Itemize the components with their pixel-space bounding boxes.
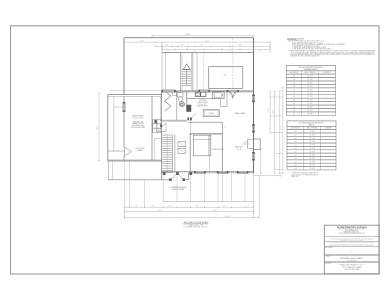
kitchen range (213, 92, 224, 99)
svg-text:BED RM 3: BED RM 3 (235, 147, 243, 149)
main bottom wall (162, 172, 254, 173)
bottom dimension line 2 (124, 210, 253, 213)
fireplace bump-out right wall (254, 139, 261, 149)
shelving cluster against wall (153, 120, 162, 133)
title block disclaimer paragraph 1 (330, 236, 374, 242)
svg-text:COMMENTS: COMMENTS (324, 128, 332, 130)
svg-text:FAMILY AREA: FAMILY AREA (235, 112, 247, 115)
svg-text:13'-2 x 14'-6: 13'-2 x 14'-6 (133, 118, 143, 120)
hall bottom wall (160, 120, 187, 121)
room schedule exterior walls table (287, 121, 336, 170)
svg-text:24'-8 1/2": 24'-8 1/2" (185, 34, 192, 36)
svg-text:CLIENT:: CLIENT: (325, 256, 330, 258)
bath/kitchen partition wall (186, 91, 188, 107)
windows top wall (162, 90, 210, 92)
door swing hall to deck (169, 172, 185, 181)
closet bifold doors zigzag (165, 91, 171, 112)
top dimension line 4 (162, 48, 270, 52)
stair enclosure wall (174, 134, 176, 172)
left wing outer wall (107, 94, 109, 161)
guest bed room right wall (221, 134, 223, 172)
top dimension line 1 (152, 34, 254, 37)
kitchen door jambs and swing (188, 114, 197, 120)
svg-text:1/2" GYP: 1/2" GYP (307, 113, 312, 115)
top dimension line 2 (124, 40, 270, 43)
svg-text:27'-4": 27'-4" (281, 126, 283, 130)
upper block left wall (123, 38, 125, 95)
plan title (183, 221, 209, 229)
deck lower edge (163, 201, 253, 203)
title block project section (325, 263, 363, 271)
svg-text:KITCHEN: KITCHEN (199, 100, 206, 102)
room schedule interior walls table (286, 65, 335, 115)
guest bed (193, 135, 211, 156)
left wing lower partition wall (108, 150, 124, 152)
title block divider 5 (324, 261, 379, 264)
svg-text:GUEST BED RM: GUEST BED RM (211, 149, 224, 151)
svg-text:SEE INT. ELEV.: SEE INT. ELEV. (197, 106, 208, 108)
guest bed room left wall (189, 134, 191, 172)
lower-left roof strip (107, 161, 109, 179)
dimension extension verticals bottom center-right (163, 173, 245, 202)
bath corridor wall (176, 91, 178, 120)
svg-text:32'-6 1/2": 32'-6 1/2" (225, 216, 232, 218)
title block divider 3 (324, 245, 379, 247)
closet by right wall (248, 140, 254, 149)
left wing bottom wall (108, 160, 162, 161)
title block revisions section (325, 247, 353, 253)
washer dryer pair (178, 142, 186, 154)
svg-text:ALPINE DRAFTING & DESIGN: ALPINE DRAFTING & DESIGN (337, 226, 367, 229)
title block client section (325, 256, 364, 262)
general notes item 2 (288, 50, 376, 58)
general notes heading (287, 37, 305, 40)
master bedroom right wall (151, 96, 153, 160)
door swing lower-left corner hall (158, 123, 166, 132)
title block firm header (337, 226, 367, 235)
svg-text:9'-2": 9'-2" (141, 40, 144, 42)
label master bedroom (131, 115, 145, 129)
svg-text:2x4: 2x4 (293, 113, 295, 115)
label bed room 3 (235, 147, 243, 151)
bottom dimension line 3 (124, 216, 258, 219)
svg-text:11 x 12: 11 x 12 (236, 149, 241, 151)
windows bottom wall (194, 171, 248, 173)
dimension extension verticals bottom left (112, 161, 144, 217)
windows right wall (252, 95, 254, 161)
title block disclaimer paragraph 2 (330, 241, 375, 247)
title block divider 4 (324, 254, 379, 257)
dashed roof line left (202, 52, 204, 91)
title block divider 1 (324, 236, 379, 238)
right wall extension to dims (254, 173, 282, 217)
laundry washer circle (179, 102, 184, 107)
svg-text:SECOND FLOOR PLAN: SECOND FLOOR PLAN (184, 221, 208, 224)
title block divider 2 (324, 241, 379, 243)
kitchen-bedroom connector wall (191, 120, 228, 134)
fireplace leader note (242, 141, 251, 144)
right exterior wall (253, 38, 255, 174)
left wing roof overhang line (110, 89, 162, 91)
deck posts below wall (163, 172, 192, 174)
upper stair with treads and up arrow (181, 52, 193, 91)
label walk-in closet (135, 148, 144, 152)
bottom dimension line 1 (124, 205, 253, 208)
label guest bed (211, 149, 224, 151)
label family room (235, 112, 247, 115)
svg-text:W.I. CLOSET: W.I. CLOSET (135, 148, 144, 150)
hall wall left of stairs (160, 91, 161, 180)
guest bed room top wall (190, 133, 223, 136)
bedroom closet divider (208, 135, 210, 172)
left wing top wall (108, 94, 162, 96)
bath linen cabinet (173, 92, 177, 96)
svg-text:TREX FLOORING: TREX FLOORING (172, 189, 185, 191)
svg-text:COMMENTS: COMMENTS (323, 72, 331, 74)
door swing left wing (125, 147, 132, 156)
dashed roof line right (232, 39, 234, 92)
svg-text:15'-6": 15'-6" (213, 210, 217, 212)
right dimension lines (260, 42, 285, 173)
svg-text:2x4: 2x4 (294, 168, 296, 170)
svg-text:14'-6": 14'-6" (97, 126, 99, 130)
bathroom toilet (178, 93, 184, 102)
sheet border frame (11, 26, 380, 274)
svg-text:PROJECT:: PROJECT: (325, 263, 332, 265)
kitchen sink (195, 92, 206, 96)
kitchen island (203, 110, 219, 117)
upper deck rectangle (209, 67, 243, 89)
svg-text:1/2" GYP: 1/2" GYP (309, 168, 314, 170)
upper floor front wall (162, 51, 254, 53)
main body top wall (162, 91, 254, 92)
top dimension line 3 (155, 45, 270, 48)
svg-text:MERIDIAN DEVELOPMENT: MERIDIAN DEVELOPMENT (340, 257, 364, 260)
svg-text:REVISIONS:: REVISIONS: (325, 247, 333, 249)
dark chimney wall block (187, 105, 192, 112)
closet partition line left room (114, 97, 124, 151)
under-stair closet (155, 138, 162, 160)
label kitchen (197, 100, 208, 108)
lower stair with treads (162, 135, 172, 173)
left dimension line (97, 93, 100, 161)
svg-text:13'-2": 13'-2" (158, 210, 162, 212)
hall band wall above bedroom (188, 122, 222, 134)
svg-text:11'-2": 11'-2" (273, 110, 275, 114)
kitchen counter (187, 92, 227, 107)
master bedroom left wall (123, 96, 125, 160)
window interior left wall (123, 102, 125, 112)
svg-text:2nd FLOOR PLAN: 2nd FLOOR PLAN (344, 268, 360, 271)
svg-text:9' CLG TYP.: 9' CLG TYP. (198, 104, 207, 106)
deck rear wall with door opening (108, 173, 188, 180)
upper block interior bay lines (162, 42, 197, 91)
table footnote (291, 172, 318, 178)
label covered deck (170, 186, 186, 191)
double door to deck upper right (227, 90, 239, 98)
general notes item 1 with sub-items (288, 40, 345, 51)
svg-text:16'-4": 16'-4" (205, 40, 209, 42)
upper block top wall (124, 37, 254, 39)
svg-text:VINYL FLOOR: VINYL FLOOR (198, 102, 209, 104)
title block outline (324, 225, 379, 274)
